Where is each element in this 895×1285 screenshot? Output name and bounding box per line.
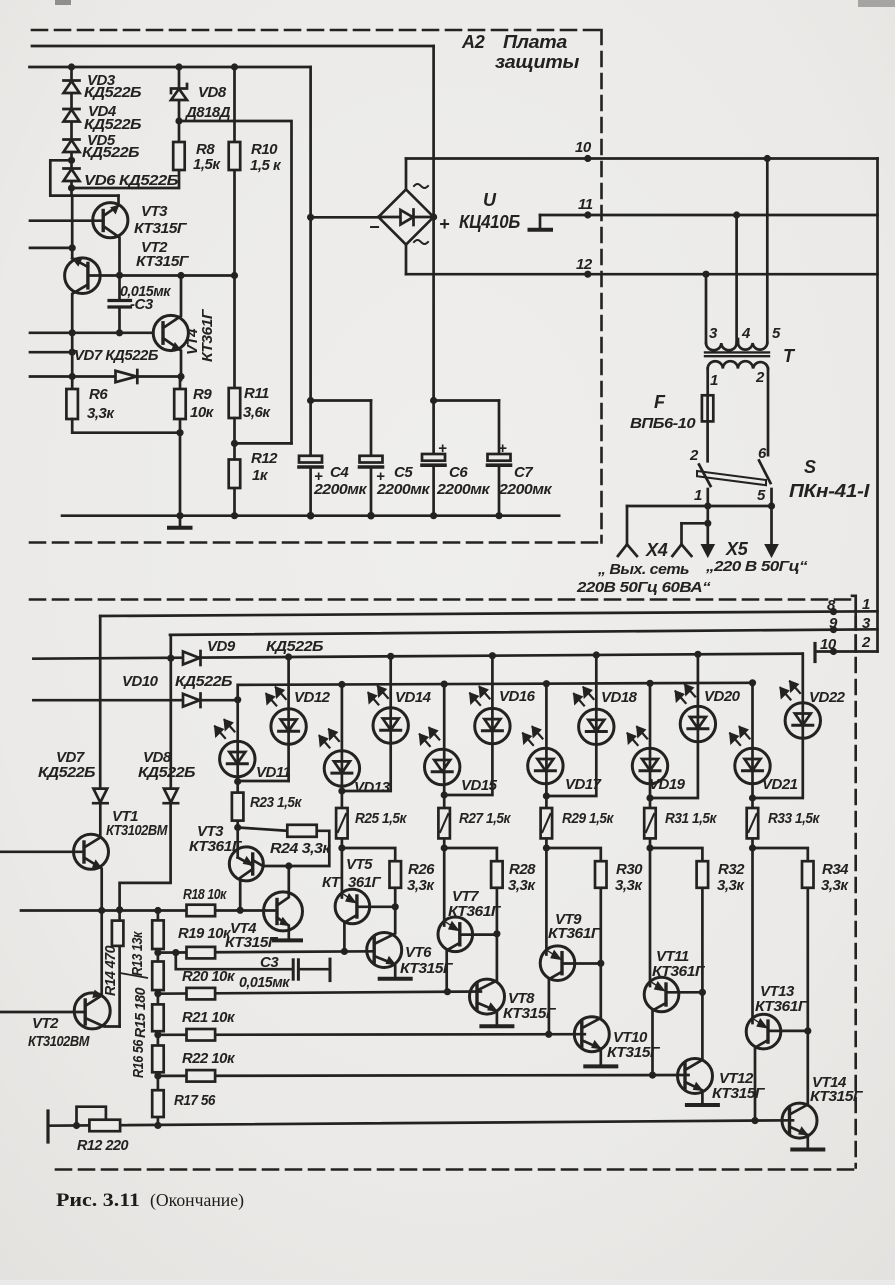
wire: R12 bypass hook: [77, 1107, 106, 1126]
svg-text:−: −: [369, 217, 380, 237]
svg-text:1: 1: [694, 487, 702, 504]
svg-text:VD8: VD8: [198, 84, 227, 101]
svg-text:VT6: VT6: [405, 944, 432, 961]
page edge smudge top right: [858, 0, 895, 7]
dashed border bottom box bottom edge: [56, 1168, 859, 1171]
wire: VT2 base row to R10 rail: [88, 274, 235, 277]
svg-text:„220 В 50Гц“: „220 В 50Гц“: [705, 558, 808, 575]
page edge smudge top left: [55, 0, 71, 5]
svg-text:6: 6: [758, 445, 767, 462]
wire: VD8 bottom to R18 row elbow: [120, 803, 171, 910]
svg-text:VD16: VD16: [499, 688, 536, 705]
node: junction dot plus rail C6/C7 bridge: [430, 397, 437, 404]
node: dot stub rail: [69, 244, 76, 251]
diode VD5: [64, 138, 80, 141]
bridge AC mark bottom: [414, 240, 428, 244]
svg-text:Рис. 3.11: Рис. 3.11: [56, 1191, 140, 1211]
svg-text:С7: С7: [514, 464, 533, 481]
diode VD4: [64, 108, 80, 111]
resistor R23: [236, 782, 239, 828]
connector X4 pin A fork: [626, 506, 629, 544]
pin block bracket corner: [852, 596, 856, 612]
node: dot gnd C5: [367, 512, 375, 520]
svg-text:ПКн-41-I: ПКн-41-I: [789, 481, 870, 501]
wire: bridge bottom AC lead: [405, 245, 408, 275]
diode VD10: [33, 699, 237, 702]
connector X5 left arrow: [706, 506, 709, 548]
resistor chain R16: [152, 1004, 164, 1031]
node: dot pin 9: [830, 626, 837, 633]
node: dot chain row B: [154, 990, 161, 997]
transistor VT11: [644, 977, 679, 1012]
svg-text:КЦ410Б: КЦ410Б: [459, 212, 521, 232]
node: dot VD12 on VD9 row: [285, 653, 292, 660]
svg-text:R19 10к: R19 10к: [178, 925, 232, 942]
svg-text:С3: С3: [260, 954, 279, 971]
wire: left rail down to R6: [71, 333, 74, 389]
capacitor C5: [360, 456, 383, 463]
node: dot base row at R10 rail: [231, 272, 238, 279]
node: dot line12 transformer tap: [702, 271, 709, 278]
resistor R19: [187, 947, 216, 959]
resistor R29: [545, 796, 548, 848]
svg-text:R12 220: R12 220: [77, 1137, 129, 1154]
node: dot rail VD7 tap: [69, 349, 76, 356]
dashed border A2 bottom edge: [30, 541, 603, 544]
resistor chain R17: [152, 1090, 164, 1117]
resistor R26: [342, 848, 395, 861]
svg-text:КТ315Г: КТ315Г: [712, 1085, 765, 1102]
ground symbol VT14: [792, 1148, 823, 1152]
resistor R21: [187, 1029, 216, 1041]
wire: bridge top AC lead: [405, 159, 408, 190]
resistor R11: [229, 388, 241, 418]
wire: left stub y352: [30, 351, 72, 354]
wire: C4 rail vertical x310: [309, 67, 312, 456]
node: dot pin10: [584, 155, 591, 162]
node: dot C3 bottom: [116, 329, 123, 336]
svg-text:1: 1: [862, 596, 870, 613]
svg-text:R33 1,5к: R33 1,5к: [768, 810, 821, 827]
node: dot chain top: [154, 907, 161, 914]
resistor R31: [649, 798, 652, 848]
svg-text:R12: R12: [251, 450, 278, 467]
wire: top supply line y46: [32, 45, 434, 48]
LED VD21: [751, 683, 754, 798]
ground symbol VT4 bottom: [274, 938, 301, 942]
svg-text:КД522Б: КД522Б: [84, 84, 142, 101]
svg-text:2: 2: [861, 634, 871, 651]
transistor VT13: [746, 1014, 781, 1049]
LED VD16: [444, 656, 492, 795]
wire: ground rail top section: [62, 514, 559, 517]
diode VD8 bottom: [164, 789, 178, 803]
resistor R24: [238, 828, 288, 831]
svg-text:R15 180: R15 180: [132, 987, 149, 1038]
transformer T secondary winding pins 1-2: [708, 361, 768, 368]
node: dot VT7 collector row B: [444, 988, 451, 995]
node: dot VT5 collector row A: [341, 948, 348, 955]
wire: X4/X5 horizontal: [627, 505, 772, 508]
svg-text:КТ315Г: КТ315Г: [503, 1005, 556, 1022]
svg-text:A2: A2: [461, 32, 485, 52]
svg-text:„ Вых. сеть: „ Вых. сеть: [597, 561, 690, 578]
resistor R27: [443, 795, 446, 848]
svg-text:VD18: VD18: [601, 689, 638, 706]
capacitor C4: [299, 456, 322, 463]
svg-text:VD12: VD12: [294, 689, 331, 706]
svg-text:VD20: VD20: [704, 688, 741, 705]
svg-text:С6: С6: [449, 464, 468, 481]
wire: right bus vertical: [876, 159, 879, 652]
svg-text:10: 10: [820, 636, 837, 653]
node: dot R24 return: [285, 862, 292, 869]
svg-text:КТ3102ВМ: КТ3102ВМ: [106, 822, 168, 839]
transistor VT2 bottom: [74, 993, 110, 1029]
LED VD12: [287, 655, 290, 781]
svg-text:1к: 1к: [252, 467, 269, 484]
node: dot VD21 bottom: [749, 794, 756, 801]
transistor VT4 bottom: [264, 892, 303, 931]
wire: row D R22: [158, 1074, 689, 1078]
wire: C6-C7 top bridge: [434, 399, 499, 402]
svg-text:КД522Б: КД522Б: [138, 764, 196, 781]
node: dot gnd R12: [231, 512, 238, 519]
svg-text:1,5 к: 1,5 к: [250, 157, 282, 174]
node: dot bridge plus vertex: [430, 213, 437, 220]
bridge rectifier U KC410B: [378, 189, 433, 244]
node: dot VD8 cathode node: [175, 117, 182, 124]
svg-text:КТ361Г: КТ361Г: [652, 963, 705, 980]
node: dot VD17 top: [543, 680, 550, 687]
node: dot VD16 on VD9 row: [489, 652, 496, 659]
resistor R28: [444, 848, 497, 861]
LED VD15: [443, 684, 446, 795]
svg-text:(Окончание): (Окончание): [150, 1190, 244, 1210]
wire: VD9 row: [33, 654, 802, 659]
svg-text:VD7 КД522Б: VD7 КД522Б: [74, 347, 159, 364]
wire: VT4 base row: [30, 331, 153, 334]
wire: VD7 bottom column from row 8: [99, 616, 102, 789]
svg-text:3,3к: 3,3к: [615, 877, 643, 894]
transistor VT7: [438, 917, 473, 952]
svg-text:КТ315Г: КТ315Г: [225, 934, 278, 951]
node: dot R33 bottom: [749, 844, 756, 851]
node: dot gnd C4: [307, 512, 315, 520]
node: dot R30 bottom: [597, 960, 604, 967]
svg-text:R25 1,5к: R25 1,5к: [355, 810, 408, 827]
node: dot pin11: [584, 211, 591, 218]
svg-text:R31 1,5к: R31 1,5к: [665, 810, 718, 827]
svg-text:КД522Б: КД522Б: [175, 673, 233, 690]
node: dot VD21 top: [749, 679, 756, 686]
svg-text:R32: R32: [718, 861, 745, 878]
svg-text:+: +: [438, 440, 447, 457]
svg-text:ВПБ6-10: ВПБ6-10: [630, 415, 696, 432]
dashed border bottom box right edge: [854, 614, 857, 1168]
node: dot VT11 collector row D: [649, 1072, 656, 1079]
wire: line 12: [406, 273, 878, 276]
node: junction dot C4/C5 bridge: [307, 397, 314, 404]
svg-text:+: +: [498, 440, 507, 457]
terminal bar row E left: [46, 1111, 49, 1142]
svg-text:S: S: [804, 457, 816, 477]
svg-text:КТ361Г: КТ361Г: [448, 903, 501, 920]
resistor R32: [650, 848, 702, 861]
svg-text:КТ361Г: КТ361Г: [199, 309, 216, 362]
node: dot X5 right: [768, 502, 775, 509]
resistor R12 bottom: [89, 1120, 120, 1132]
transistor VT14: [782, 1103, 817, 1138]
resistor R30: [546, 848, 600, 861]
svg-text:VD14: VD14: [395, 689, 432, 706]
svg-text:Х4: Х4: [645, 540, 668, 560]
svg-text:Плата: Плата: [503, 32, 567, 52]
node: dot VD7 row left: [69, 373, 76, 380]
transistor VT12: [678, 1059, 713, 1094]
wire: row E bottom: [48, 1120, 793, 1125]
node: dot X5 left: [704, 502, 711, 509]
svg-text:8: 8: [827, 597, 836, 614]
resistor R34: [753, 848, 808, 861]
node: dot VD13 bottom: [338, 787, 345, 794]
transistor VT8: [470, 979, 505, 1014]
svg-text:Х5: Х5: [725, 539, 749, 559]
diode VD7 bottom: [93, 789, 107, 803]
svg-text:VD10: VD10: [122, 673, 159, 690]
svg-text:VD19: VD19: [649, 776, 686, 793]
svg-text:VD6 КД522Б: VD6 КД522Б: [84, 172, 179, 189]
wire: row 8: [100, 611, 877, 616]
LED VD14: [342, 656, 391, 791]
node: dot VT9 collector row C: [545, 1031, 552, 1038]
svg-text:R22 10к: R22 10к: [182, 1050, 236, 1067]
transistor VT4 top section: [153, 315, 188, 350]
wire: R11 bottom link: [235, 442, 292, 445]
node: dot R27 bottom: [441, 844, 448, 851]
svg-text:С4: С4: [330, 464, 349, 481]
transistor VT2 top section: [65, 258, 101, 294]
node: dot VD19 bottom: [646, 794, 653, 801]
resistor R33: [751, 798, 754, 848]
node: dot VD11 bottom: [234, 778, 241, 785]
node: dot R28 bottom: [493, 930, 500, 937]
ground symbol line 11: [539, 215, 542, 229]
svg-text:КТ361Г: КТ361Г: [548, 925, 601, 942]
wire: row A R19: [158, 951, 373, 952]
transistor VT3 top section: [93, 203, 128, 238]
resistor R8: [173, 142, 185, 170]
transistor VT10: [574, 1017, 609, 1052]
node: dot R9 bottom link: [176, 429, 183, 436]
svg-text:0,015мк: 0,015мк: [239, 974, 291, 991]
switch S right blade: [759, 461, 771, 484]
svg-text:R17 56: R17 56: [174, 1092, 216, 1109]
node: dot line11 transformer tap: [733, 211, 740, 218]
node: dot VT1 emitter at row: [98, 907, 105, 914]
transistor VT9: [540, 946, 575, 981]
svg-text:2: 2: [689, 447, 699, 464]
svg-text:R9: R9: [193, 386, 212, 403]
transformer T core: [705, 351, 769, 353]
svg-text:R20 10к: R20 10к: [182, 968, 236, 985]
label pointer line R14: [120, 973, 148, 978]
svg-text:R26: R26: [408, 861, 435, 878]
svg-text:КТ361Г: КТ361Г: [755, 998, 808, 1015]
node: dot VD20 on VD9 row: [694, 651, 701, 658]
svg-text:220В 50Гц 60ВА“: 220В 50Гц 60ВА“: [576, 579, 711, 596]
node: dot R32 bottom: [699, 989, 706, 996]
svg-text:+: +: [376, 468, 385, 485]
svg-text:F: F: [654, 392, 666, 412]
resistor R12 top section: [233, 418, 236, 516]
svg-text:КД522Б: КД522Б: [82, 144, 140, 161]
svg-text:10к: 10к: [190, 404, 215, 421]
resistor R6: [66, 389, 78, 419]
svg-text:VD17: VD17: [565, 776, 602, 793]
svg-text:VT5: VT5: [346, 856, 373, 873]
svg-text:R30: R30: [616, 861, 643, 878]
svg-text:R23 1,5к: R23 1,5к: [250, 794, 303, 811]
svg-text:R6: R6: [89, 386, 108, 403]
wire: VD7 row: [30, 375, 181, 378]
dashed border A2 right edge: [600, 30, 603, 543]
svg-text:КТ315Г: КТ315Г: [607, 1044, 660, 1061]
node: dot VT3 collector at row: [237, 907, 244, 914]
diode VD7 top section: [116, 371, 137, 382]
node: dot R29 bottom: [543, 844, 550, 851]
svg-text:VD22: VD22: [809, 689, 846, 706]
svg-text:2: 2: [755, 369, 765, 386]
svg-text:3,3к: 3,3к: [508, 877, 536, 894]
wire: row pin 10 bottom: [815, 650, 878, 653]
svg-text:R11: R11: [244, 385, 269, 402]
node: dot chain row D: [154, 1072, 161, 1079]
svg-text:КД522Б: КД522Б: [266, 638, 324, 655]
svg-text:R16 56: R16 56: [130, 1039, 147, 1078]
node: dot VD8 top: [175, 63, 182, 70]
svg-text:VD15: VD15: [461, 777, 498, 794]
svg-text:3,3к: 3,3к: [87, 405, 115, 422]
svg-text:КТ315Г: КТ315Г: [136, 253, 189, 270]
wire: C4-C5 top bridge: [311, 399, 371, 402]
svg-text:3,6к: 3,6к: [243, 404, 271, 421]
LED VD22: [753, 654, 803, 798]
svg-text:защиты: защиты: [495, 52, 580, 72]
wire: bridge minus link: [311, 216, 379, 219]
diode VD3: [64, 79, 80, 82]
svg-text:2200мк: 2200мк: [436, 481, 491, 498]
node: dot above VD6: [68, 157, 75, 164]
LED VD13: [341, 685, 344, 792]
node: dot C3 top: [116, 272, 123, 279]
node: dot pin 8: [830, 608, 837, 615]
svg-text:1: 1: [710, 372, 718, 389]
svg-text:R21 10к: R21 10к: [182, 1009, 236, 1026]
node: dot VD15 bottom: [441, 791, 448, 798]
resistor chain unnamed: [152, 1046, 164, 1073]
node: dot rail at VT4 row: [69, 329, 76, 336]
resistor R20: [187, 988, 216, 1000]
ground symbol VT12: [687, 1103, 718, 1107]
node: dot VD15 top: [441, 681, 448, 688]
ground symbol VT6: [380, 977, 411, 981]
node: dot VD14 on VD9 row: [387, 653, 394, 660]
svg-text:R29 1,5к: R29 1,5к: [562, 810, 615, 827]
node: dot VT13 collector row E: [751, 1117, 758, 1124]
svg-text:5: 5: [772, 325, 781, 342]
svg-text:КТ3102ВМ: КТ3102ВМ: [28, 1033, 90, 1050]
wire: VD8 bottom column from row 9: [169, 635, 172, 789]
svg-text:VD13: VD13: [354, 779, 391, 796]
node: dot R31 bottom: [646, 844, 653, 851]
node: dot chain top: [68, 63, 75, 70]
resistor chain R13: [157, 911, 160, 1126]
svg-text:3,3к: 3,3к: [821, 877, 849, 894]
resistor R14: [118, 910, 121, 1027]
pin block separator 9: [854, 618, 857, 630]
node: dot line10 transformer tap: [764, 155, 771, 162]
svg-text:VT3: VT3: [141, 203, 168, 220]
node: dot C3 tap: [172, 949, 179, 956]
svg-text:9: 9: [829, 615, 838, 632]
wire: line 11: [540, 214, 878, 217]
wire: VD12 bottom elbow to VD11: [238, 780, 289, 783]
node: dot R34 bottom: [804, 1027, 811, 1034]
wire: switch terminal 5 drop: [770, 489, 773, 506]
diode VD9: [183, 652, 200, 665]
svg-text:+: +: [314, 468, 323, 485]
node: dot VD19 top: [646, 680, 653, 687]
node: dot gnd R9: [176, 512, 183, 519]
resistor R25: [341, 791, 344, 848]
switch S left blade: [699, 465, 711, 487]
dashed border bottom box top edge: [30, 598, 852, 601]
svg-text:КТ315Г: КТ315Г: [810, 1088, 863, 1105]
resistor R18: [187, 905, 216, 917]
bridge AC mark top: [414, 184, 428, 188]
node: dot VD17 bottom: [543, 792, 550, 799]
node: junction dot minus rail: [307, 214, 314, 221]
svg-text:КТ361Г: КТ361Г: [189, 838, 242, 855]
node: dot below VD6: [68, 184, 75, 191]
node: dot R26 bottom: [392, 903, 399, 910]
svg-text:КД522Б: КД522Б: [38, 764, 96, 781]
LED VD19: [649, 683, 652, 798]
svg-text:U: U: [483, 190, 497, 210]
svg-text:5: 5: [757, 487, 766, 504]
wire: left stub to VT2 emitter rail: [30, 247, 72, 250]
svg-text:VD21: VD21: [762, 776, 798, 793]
svg-text:2200мк: 2200мк: [498, 481, 553, 498]
node: dot chain row C: [154, 1031, 161, 1038]
svg-text:3: 3: [862, 615, 871, 632]
svg-text:10: 10: [575, 139, 592, 156]
node: dot R11 bottom: [231, 440, 238, 447]
connector X4 pin B fork and hook: [682, 522, 708, 525]
resistor R10: [233, 67, 236, 388]
wire: R6-R9 bottom link: [72, 419, 180, 433]
node: dot R12 left: [73, 1122, 80, 1129]
svg-text:VT2: VT2: [32, 1015, 59, 1032]
wire: VD8 node to right rail: [179, 121, 292, 443]
transistor VT3 bottom: [229, 847, 263, 881]
node: dot pin 10: [830, 648, 837, 655]
wire: line 10: [406, 157, 878, 160]
node: dot VD13 top: [338, 681, 345, 688]
ground symbol top section: [179, 516, 182, 527]
svg-text:VD11: VD11: [256, 764, 291, 781]
